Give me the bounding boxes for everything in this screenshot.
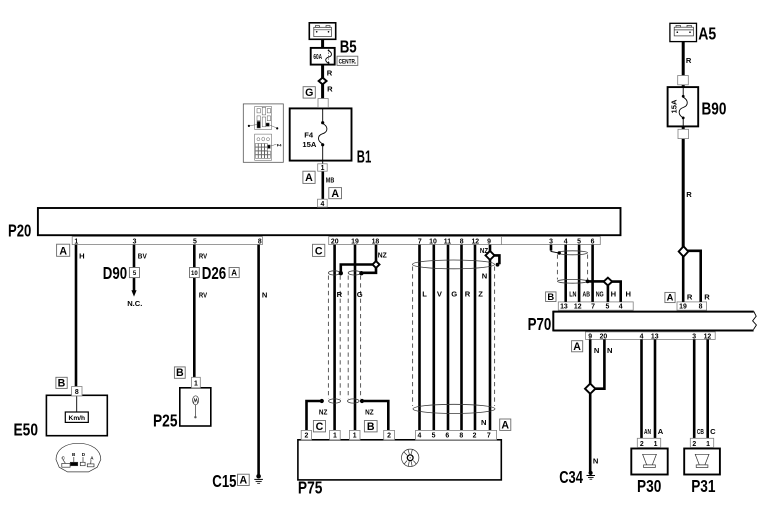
svg-text:AB: AB: [583, 290, 591, 299]
svg-text:L: L: [422, 290, 427, 299]
svg-text:G: G: [357, 290, 363, 299]
svg-text:8: 8: [459, 433, 463, 440]
svg-text:G: G: [305, 87, 313, 99]
speaker P31 box: [684, 449, 720, 475]
svg-text:RV: RV: [199, 252, 208, 261]
svg-text:8: 8: [460, 239, 464, 246]
junction dot pair1 top: [339, 271, 343, 275]
svg-text:9: 9: [487, 239, 491, 246]
wire R P20 pin 20 to P75: [333, 245, 336, 431]
connector letter G (B1): [303, 87, 315, 98]
svg-text:7: 7: [591, 304, 595, 311]
svg-text:5: 5: [605, 304, 609, 311]
svg-text:P70: P70: [528, 314, 552, 334]
connector strip A of P70 (pins 19,8): [677, 302, 707, 310]
svg-text:20: 20: [331, 239, 339, 246]
svg-text:B1: B1: [357, 147, 372, 167]
pin 4 box above P20: [318, 199, 328, 207]
svg-text:LN: LN: [569, 290, 576, 299]
P70 radio box with torn edge: [753, 312, 757, 330]
svg-text:A: A: [658, 427, 664, 436]
svg-text:NZ: NZ: [365, 407, 374, 416]
wire V P20 pin 10 to P75 pin 5: [432, 245, 435, 431]
svg-text:A: A: [667, 292, 674, 303]
svg-text:2: 2: [304, 433, 308, 440]
ground C34: [589, 471, 593, 475]
wire Z P20 pin 12 to P75 pin 2: [474, 245, 477, 431]
svg-text:12: 12: [471, 239, 479, 246]
screen ellipse pair1 top: [328, 271, 340, 275]
fuse B90 box: [668, 87, 699, 126]
P75 pin 2 box (C): [301, 430, 311, 439]
connector letter B (P25): [174, 367, 185, 378]
pin 1 box below B1: [318, 164, 328, 171]
connector letter B (P70): [546, 292, 556, 302]
wire BV P20 pin 3 to D90: [133, 245, 136, 291]
svg-text:P75: P75: [298, 478, 323, 498]
wire N node to P75 pin 7: [489, 260, 492, 431]
aerial amplifier P25 box: [180, 388, 211, 426]
instrument cluster E50 box: [46, 395, 107, 435]
svg-text:B: B: [547, 291, 554, 302]
bottom connector strip of P70 (pins 9,20,4,13,3,12): [586, 332, 716, 340]
node NZ (pin 9): [486, 251, 495, 260]
svg-text:4: 4: [619, 304, 623, 311]
wire R P20 pin 8 to P75 pin 8: [460, 245, 463, 431]
svg-text:N: N: [481, 418, 486, 427]
wire battery A5 down: [682, 42, 685, 77]
svg-text:N: N: [262, 290, 267, 299]
battery B5 box: [309, 23, 335, 40]
wire CB P70 pin 3 to P31 pin 2: [693, 339, 696, 438]
svg-text:C: C: [710, 427, 716, 436]
svg-text:C: C: [315, 246, 323, 258]
P75 pin 2 box (B): [384, 430, 395, 439]
svg-text:D26: D26: [202, 263, 227, 283]
connector letter A (P70 bottom): [572, 341, 583, 352]
svg-text:AN: AN: [644, 427, 651, 436]
speaker P30 box: [631, 449, 667, 475]
fusebox location inset: [243, 104, 283, 162]
wire N P70 pin 9 to node: [589, 339, 592, 384]
P25 pin 1 box: [192, 377, 201, 388]
svg-text:4: 4: [564, 239, 568, 246]
svg-text:G: G: [451, 290, 457, 299]
svg-text:1: 1: [321, 165, 325, 172]
svg-text:20: 20: [600, 334, 608, 341]
svg-text:6: 6: [445, 433, 449, 440]
svg-text:11: 11: [444, 239, 451, 246]
svg-text:H: H: [626, 290, 631, 299]
svg-text:R: R: [327, 69, 333, 78]
connector stub below B90: [678, 129, 689, 138]
svg-text:2: 2: [692, 441, 696, 448]
svg-text:R: R: [687, 293, 693, 302]
connector letter B (P75): [364, 421, 377, 432]
svg-text:N.C.: N.C.: [127, 299, 142, 308]
shielded pair 1 dashed screen: [327, 276, 329, 400]
connector strip B of P70 (pins 13,12,7,5,4): [558, 302, 633, 310]
P25 symbol: [193, 396, 199, 405]
speaker P31 symbol: [695, 454, 709, 467]
svg-text:C34: C34: [559, 467, 583, 487]
svg-text:F4: F4: [304, 131, 314, 140]
svg-text:1: 1: [74, 239, 78, 246]
svg-text:2: 2: [640, 441, 644, 448]
node R (B90): [679, 246, 689, 256]
svg-text:1: 1: [194, 381, 198, 388]
wire P20 pin 3 to screen: [551, 250, 559, 253]
svg-text:H: H: [611, 290, 616, 299]
svg-text:B: B: [58, 378, 66, 390]
connector letter A (C15): [238, 474, 250, 485]
svg-text:A: A: [331, 188, 339, 200]
svg-text:D90: D90: [103, 263, 127, 283]
node on wire R (B5): [319, 78, 327, 85]
connector letter A (P75): [500, 419, 511, 430]
svg-text:A5: A5: [698, 24, 716, 44]
svg-text:8: 8: [258, 239, 262, 246]
E50 pin 8 box: [72, 387, 82, 396]
junction dot bundle screen: [496, 263, 500, 267]
svg-text:A: A: [239, 474, 247, 486]
svg-text:6: 6: [591, 239, 595, 246]
svg-text:19: 19: [679, 304, 687, 311]
svg-text:5: 5: [577, 239, 581, 246]
junction dot P70 pair screen top: [558, 251, 561, 254]
N.C. arrowhead: [131, 290, 136, 296]
svg-text:B: B: [367, 421, 375, 433]
fuse B90 element: [679, 97, 687, 118]
junction dot pair1 bottom: [320, 399, 324, 403]
shielded bundle dashed screen: [412, 267, 414, 407]
E50 connector face view: [56, 443, 101, 472]
svg-text:NZ: NZ: [378, 251, 387, 260]
junction dot P70 pair screen bottom: [586, 280, 590, 284]
svg-text:2: 2: [473, 433, 477, 440]
svg-text:19: 19: [351, 239, 359, 246]
wire G P20 pin 11 to P75 pin 6: [447, 245, 450, 431]
svg-text:CB: CB: [697, 427, 704, 436]
P30 pin boxes: [637, 438, 660, 447]
wire NZ node to pair1 screen: [341, 265, 373, 273]
svg-text:12: 12: [704, 334, 712, 341]
wire NZ pair1 screen to P75 pin 2: [307, 401, 322, 430]
wire R node to P70 pin 8: [688, 251, 701, 302]
connector letter A (B1 below): [303, 171, 315, 183]
svg-text:7: 7: [418, 239, 422, 246]
svg-text:A: A: [231, 269, 237, 278]
svg-text:Z: Z: [478, 290, 483, 299]
svg-text:4: 4: [640, 334, 644, 341]
wire N P70 pin 20 to node: [595, 339, 604, 388]
connector letter A (P20 pin 4): [329, 188, 342, 199]
wire H screen to node: [588, 280, 604, 283]
svg-text:R: R: [704, 293, 710, 302]
wire R fuse B5 to node: [321, 65, 324, 78]
battery B5 symbol: [314, 26, 332, 37]
svg-text:3: 3: [133, 239, 137, 246]
svg-text:1: 1: [706, 441, 710, 448]
svg-text:R: R: [327, 85, 333, 94]
label CENTR: [337, 56, 358, 65]
svg-text:C15: C15: [212, 471, 236, 491]
svg-text:RV: RV: [199, 290, 208, 299]
svg-text:1: 1: [654, 441, 658, 448]
ground C15: [256, 474, 261, 479]
wire MB B1 pin 1 to P20 pin 4: [321, 171, 324, 199]
connector letter A (D26): [229, 268, 239, 278]
svg-text:60A: 60A: [313, 52, 322, 61]
junction dot pair2 top: [359, 271, 363, 275]
connector letter B (E50): [56, 377, 67, 388]
svg-text:13: 13: [560, 304, 568, 311]
svg-text:H: H: [79, 252, 84, 261]
wire node to bundle screen: [494, 255, 499, 264]
connector letter A (P70): [665, 292, 675, 302]
connector letter A (P20 strip 1): [57, 244, 70, 256]
P31 pin boxes: [690, 438, 713, 447]
screen ellipse P70 pair bottom: [558, 279, 588, 283]
svg-text:R: R: [337, 290, 343, 299]
shielded pair 2 dashed screen: [347, 276, 349, 400]
P75 pin strip A: [416, 430, 497, 439]
connector letter C (P75): [313, 421, 325, 432]
wire R into fuse B90: [682, 84, 685, 88]
svg-text:12: 12: [574, 304, 582, 311]
svg-text:3: 3: [549, 239, 553, 246]
svg-text:R: R: [686, 190, 692, 199]
node H (P70): [604, 278, 613, 286]
connector stub G above B1: [318, 99, 328, 108]
wire inside B1 to fuse F4: [322, 100, 324, 123]
screen ellipse bundle top: [413, 260, 495, 269]
fuse B5 element: [328, 50, 330, 64]
svg-text:B: B: [176, 367, 184, 379]
svg-text:5: 5: [193, 239, 197, 246]
svg-text:P30: P30: [637, 476, 662, 496]
svg-text:A: A: [305, 172, 313, 184]
node N (C34): [585, 384, 595, 394]
svg-text:Km/h: Km/h: [69, 415, 86, 422]
wire H node to P70 pin 4: [612, 282, 621, 302]
svg-text:N: N: [607, 346, 612, 355]
wire NZ P20 pin 18 to node: [375, 245, 378, 262]
svg-text:N: N: [482, 272, 487, 281]
junction dot pair2 bottom: [360, 399, 364, 403]
CD changer P75 box: [298, 440, 501, 480]
wire H node to P70 pin 5: [607, 285, 610, 302]
screen ellipse pair1 bottom: [329, 399, 341, 403]
svg-text:7: 7: [487, 433, 491, 440]
screen ellipse bundle bottom: [413, 404, 495, 413]
wire N node to C34: [589, 394, 592, 472]
svg-text:F4: F4: [277, 142, 282, 147]
E50 internal link: [76, 396, 78, 412]
screen ellipse pair2 bottom: [348, 399, 360, 403]
svg-text:P25: P25: [153, 411, 178, 431]
svg-text:A: A: [59, 246, 67, 258]
svg-text:9: 9: [588, 334, 592, 341]
node NZ (pin 18): [373, 261, 380, 268]
svg-text:P31: P31: [691, 476, 716, 496]
svg-text:10: 10: [429, 239, 437, 246]
svg-text:3: 3: [692, 334, 696, 341]
svg-text:1: 1: [333, 433, 337, 440]
svg-text:NZ: NZ: [319, 407, 328, 416]
svg-text:MB: MB: [326, 176, 335, 185]
wire R node to P70 pin 19: [682, 257, 685, 302]
svg-text:10: 10: [191, 271, 198, 277]
wire NG P20 pin 6 to P70 pin 7: [591, 245, 594, 302]
svg-text:A: A: [573, 341, 581, 353]
screen ellipse P70 pair top: [558, 251, 588, 255]
battery A5 box: [670, 23, 697, 41]
wire AN P70 pin 4 to P30 pin 2: [640, 339, 643, 438]
speaker P30 symbol: [643, 454, 657, 467]
svg-text:N: N: [593, 456, 598, 465]
P75 pin 1 box (B): [349, 430, 360, 439]
connector strip A of P20 (pins 1,3,5,8): [72, 237, 262, 245]
svg-text:R: R: [465, 290, 471, 299]
pin 5 box (D90): [129, 268, 139, 278]
svg-text:8: 8: [699, 304, 703, 311]
svg-text:15A: 15A: [302, 140, 316, 149]
Km/h indicator box: [65, 412, 88, 422]
svg-text:R: R: [686, 56, 692, 65]
wire LN P20 pin 4 to P70 pin 13: [564, 245, 567, 302]
wire NZ P20 pin 9 to node: [489, 245, 492, 252]
wire NZ node to pair2 screen: [362, 268, 376, 273]
connector letter C (P20 strip 2): [313, 244, 325, 256]
svg-text:B90: B90: [702, 99, 727, 119]
wire NZ pair2 screen to P75 pin 2: [363, 401, 389, 430]
svg-text:NG: NG: [596, 290, 604, 299]
svg-text:15A: 15A: [670, 99, 679, 113]
connector strip C/B of P20 (pins 20..9, 3..6): [329, 237, 601, 245]
svg-text:13: 13: [651, 334, 659, 341]
wire C P70 pin 12 to P31 pin 1: [706, 339, 709, 438]
wire H P20 pin 1 to E50: [75, 245, 78, 387]
svg-text:1: 1: [353, 433, 357, 440]
wire RV P20 pin 5 to P25: [193, 245, 196, 378]
svg-text:4: 4: [417, 433, 421, 440]
screen ellipse pair2 top: [348, 271, 361, 275]
P20 control unit box: [38, 208, 621, 235]
shielded pair P20-P70 dashed screen: [556, 255, 558, 280]
wire A P70 pin 13 to P30 pin 1: [654, 339, 657, 438]
fuse B5 box: [311, 48, 335, 65]
wire G P20 pin 19 to P75: [354, 245, 357, 431]
svg-text:NZ: NZ: [480, 246, 488, 255]
svg-text:18: 18: [372, 239, 380, 246]
svg-text:C: C: [316, 421, 324, 433]
svg-text:BV: BV: [138, 252, 148, 261]
svg-text:5: 5: [432, 433, 436, 440]
fusebox B1: [290, 108, 352, 160]
svg-text:8: 8: [75, 389, 79, 396]
battery A5 symbol: [674, 25, 693, 36]
svg-text:2: 2: [387, 433, 391, 440]
wire battery B5 to fuse: [321, 39, 324, 48]
wire AB P20 pin 5 to P70 pin 12: [578, 245, 581, 302]
pin 10 box (D26): [190, 268, 200, 278]
svg-text:E50: E50: [14, 419, 39, 439]
wire R node to B1: [321, 84, 324, 100]
wire N P20 pin 8 to C15: [257, 245, 260, 475]
P75 pin 1 box (C): [330, 430, 341, 439]
wire L P20 pin 7 to P75 pin 4: [418, 245, 421, 431]
svg-text:CENTR.: CENTR.: [339, 59, 357, 66]
svg-text:A: A: [501, 419, 509, 431]
wire R B90 to node: [682, 138, 685, 247]
svg-text:4: 4: [320, 201, 324, 208]
svg-text:B5: B5: [340, 37, 357, 57]
fuse F4 element: [319, 124, 327, 144]
connector stub above B90: [678, 76, 689, 85]
svg-text:P20: P20: [8, 221, 31, 241]
svg-text:N: N: [594, 346, 599, 355]
CD icon: [402, 449, 419, 466]
